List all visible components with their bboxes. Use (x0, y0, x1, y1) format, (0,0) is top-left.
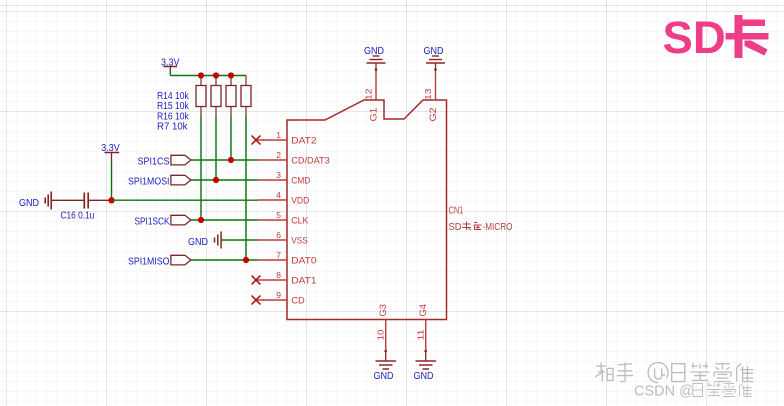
watermark line 2: CSDN @日落悬崖 (633, 382, 752, 400)
ground GND (left of C16) (19, 192, 51, 210)
wire R15 bottom to CMD net (215, 117, 217, 181)
junction dot CMD pull-up (213, 177, 219, 183)
wire VDD node to pin 4 (112, 199, 258, 201)
wire SPI1CS to pin 2 (191, 159, 258, 161)
pin 11 G4 (bottom) (415, 304, 429, 350)
wire R7 bottom to DAT0 net (245, 117, 247, 261)
svg-text:1: 1 (276, 130, 281, 140)
no-connect X pin 9 (252, 296, 261, 305)
wire R16 bottom to CD/DAT3 net (230, 117, 232, 161)
wire SPI1SCK to pin 5 (191, 219, 258, 221)
wire SPI1MISO to pin 7 (191, 259, 258, 261)
ground GND (below pin 10) (374, 350, 397, 382)
svg-text:13: 13 (423, 88, 433, 100)
svg-text:3: 3 (276, 170, 281, 180)
no-connect X pin 1 (252, 136, 261, 145)
wire 3.3V down to VDD net (111, 162, 113, 200)
power flag 3.3V (top, feeds pull-up resistors) (161, 57, 180, 72)
pin 10 G3 (bottom) (375, 304, 389, 350)
svg-text:CMD: CMD (291, 176, 310, 187)
svg-text:GND: GND (188, 236, 208, 248)
svg-text:GND: GND (414, 370, 434, 382)
svg-text:CD/DAT3: CD/DAT3 (291, 156, 329, 167)
wire 3.3V rail to resistor tops (170, 71, 246, 76)
pin 2 CD/DAT3 (258, 150, 330, 167)
svg-text:DAT0: DAT0 (291, 256, 316, 267)
svg-text:-MICRO: -MICRO (483, 222, 513, 233)
svg-text:2: 2 (276, 150, 281, 160)
connector CN1 body outline (287, 100, 447, 320)
pin 5 CLK (258, 210, 309, 227)
pin 8 DAT1 (258, 270, 317, 287)
svg-text:DAT1: DAT1 (291, 276, 316, 287)
pin 11 end dot (424, 350, 427, 353)
svg-text:G3: G3 (378, 304, 389, 317)
no-connect X pin 8 (252, 276, 261, 285)
svg-text:CD: CD (291, 296, 305, 307)
netflag SPI1CS (138, 155, 191, 167)
title SD卡 (663, 12, 769, 63)
pin 1 DAT2 (258, 130, 317, 147)
junction dot CD/DAT3 pull-up (228, 157, 234, 163)
svg-text:C16 0.1u: C16 0.1u (61, 209, 95, 221)
svg-text:GND: GND (19, 197, 39, 209)
svg-text:G2: G2 (428, 108, 439, 122)
junction dot CLK pull-up (198, 217, 204, 223)
watermark line 1: 知乎 @日落悬崖 (594, 362, 753, 383)
netflag SPI1MOSI (128, 175, 191, 187)
junction dot at R15 top (213, 72, 219, 78)
svg-text:CN1: CN1 (449, 206, 464, 217)
svg-text:5: 5 (276, 210, 281, 220)
power flag 3.3V (left, at C16) (101, 142, 120, 162)
junction dot at R14 top (198, 72, 204, 78)
junction dot DAT0 pull-up (243, 257, 249, 263)
pin 13 end dot (434, 68, 437, 71)
svg-text:GND: GND (424, 45, 444, 57)
svg-text:7: 7 (276, 250, 281, 260)
resistor R15 10k (211, 76, 221, 117)
ground GND (below pin 11) (414, 350, 437, 382)
ground GND (above pin 12) (364, 45, 386, 70)
svg-text:R7 10k: R7 10k (157, 122, 188, 133)
svg-text:6: 6 (276, 230, 281, 240)
svg-text:8: 8 (276, 270, 281, 280)
wire SPI1MOSI to pin 3 (191, 179, 258, 181)
resistor R16 10k (226, 76, 236, 117)
svg-text:G1: G1 (368, 108, 379, 122)
svg-text:CSDN @: CSDN @ (634, 384, 694, 400)
ground GND (above pin 13) (424, 45, 446, 70)
wire GND to C16 left plate (red) (51, 199, 83, 201)
netflag SPI1SCK (135, 215, 191, 227)
pin 7 DAT0 (258, 250, 317, 267)
pin 4 VDD (258, 190, 310, 207)
svg-text:4: 4 (276, 190, 281, 200)
wire GND to pin 6 (221, 239, 257, 241)
svg-text:10: 10 (375, 329, 385, 340)
svg-text:G4: G4 (418, 304, 429, 317)
svg-text:SPI1SCK: SPI1SCK (135, 215, 170, 227)
svg-text:12: 12 (363, 88, 373, 100)
pin 9 CD (258, 290, 305, 307)
pin 10 end dot (384, 350, 387, 353)
pin 6 VSS (258, 230, 308, 247)
resistor value labels R14/R15/R16/R7 10k (157, 91, 190, 133)
ground GND (at pin 6 VSS) (188, 232, 221, 249)
svg-text:11: 11 (415, 329, 425, 340)
wire C16 right plate to VDD junction (red) (88, 199, 111, 201)
pin 12 end dot (375, 68, 378, 71)
svg-text:CLK: CLK (291, 216, 309, 227)
svg-text:GND: GND (374, 370, 394, 382)
capacitor C16 0.1u (61, 193, 95, 222)
pin 13 G2 (top) (423, 70, 439, 122)
junction dot at R16 top (228, 72, 234, 78)
svg-text:VSS: VSS (291, 236, 308, 247)
svg-text:GND: GND (364, 45, 384, 57)
wire R14 bottom to CLK net (200, 117, 202, 221)
svg-text:VDD: VDD (291, 196, 309, 207)
svg-text:SD: SD (449, 222, 462, 233)
svg-text:DAT2: DAT2 (291, 136, 316, 147)
svg-text:SPI1CS: SPI1CS (138, 155, 170, 167)
resistor R14 10k (196, 76, 206, 117)
pin 12 G1 (top) (363, 70, 379, 122)
svg-text:SD: SD (663, 12, 726, 63)
svg-text:9: 9 (276, 290, 281, 300)
svg-text:SPI1MOSI: SPI1MOSI (128, 175, 170, 187)
resistor R7 10k (241, 76, 251, 117)
pin 3 CMD (258, 170, 311, 187)
svg-text:SPI1MISO: SPI1MISO (128, 255, 170, 267)
netflag SPI1MISO (128, 255, 191, 267)
junction dot VDD node (108, 197, 114, 203)
comment SD卡座-MICRO (449, 222, 513, 234)
